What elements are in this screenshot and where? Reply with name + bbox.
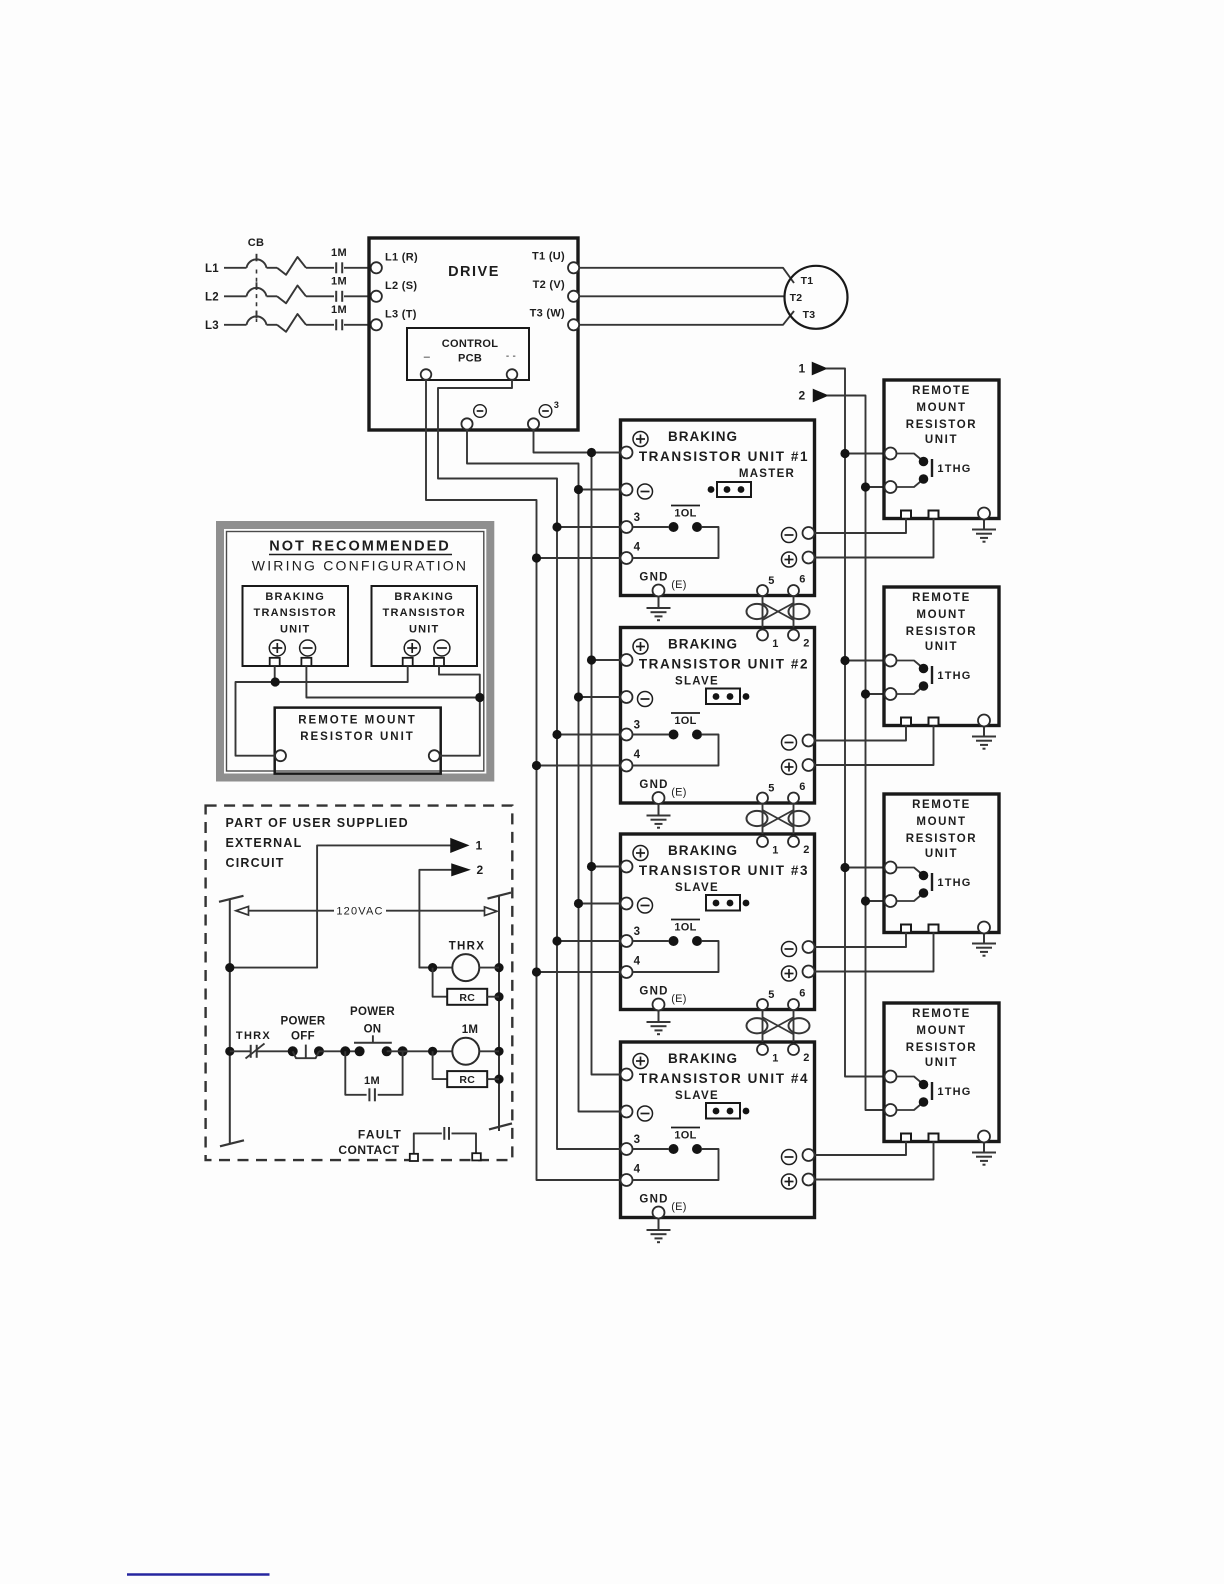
svg-text:1: 1 (772, 638, 778, 650)
svg-text:T1 (U): T1 (U) (532, 250, 565, 262)
svg-text:3: 3 (634, 720, 641, 732)
svg-text:2: 2 (477, 863, 484, 877)
svg-text:NOT RECOMMENDED: NOT RECOMMENDED (269, 539, 450, 555)
svg-text:120VAC: 120VAC (336, 906, 383, 918)
svg-text:RC: RC (459, 1074, 475, 1086)
svg-text:UNIT: UNIT (280, 624, 310, 636)
svg-text:1: 1 (799, 362, 806, 376)
svg-text:SLAVE: SLAVE (675, 1090, 719, 1102)
svg-text:REMOTE: REMOTE (912, 799, 971, 811)
svg-text:MOUNT: MOUNT (916, 816, 966, 828)
svg-text:THRX: THRX (236, 1030, 271, 1042)
svg-text:UNIT: UNIT (409, 624, 439, 636)
svg-text:L3 (T): L3 (T) (385, 308, 417, 320)
svg-text:2: 2 (803, 844, 809, 856)
svg-text:POWER: POWER (350, 1006, 395, 1018)
svg-text:1THG: 1THG (937, 877, 971, 889)
svg-text:TRANSISTOR UNIT #3: TRANSISTOR UNIT #3 (639, 863, 809, 878)
svg-text:6: 6 (799, 574, 805, 586)
svg-text:TRANSISTOR UNIT #4: TRANSISTOR UNIT #4 (639, 1071, 809, 1086)
svg-text:4: 4 (634, 749, 641, 761)
svg-text:2: 2 (803, 638, 809, 650)
svg-text:4: 4 (634, 956, 641, 968)
svg-text:T3: T3 (803, 309, 816, 321)
svg-text:BRAKING: BRAKING (668, 637, 738, 652)
svg-text:TRANSISTOR: TRANSISTOR (383, 607, 466, 619)
svg-text:T1: T1 (801, 275, 814, 287)
svg-text:1THG: 1THG (937, 1086, 971, 1098)
svg-text:T3 (W): T3 (W) (530, 307, 565, 319)
svg-text:REMOTE MOUNT: REMOTE MOUNT (298, 715, 417, 727)
svg-text:T2 (V): T2 (V) (533, 279, 565, 291)
svg-text:RC: RC (459, 992, 475, 1004)
svg-text:GND: GND (639, 572, 668, 584)
svg-text:1M: 1M (364, 1075, 380, 1087)
svg-text:1THG: 1THG (937, 670, 971, 682)
svg-text:5: 5 (768, 783, 774, 795)
svg-text:RESISTOR: RESISTOR (906, 833, 977, 845)
svg-text:(E): (E) (671, 993, 687, 1005)
svg-text:1M: 1M (462, 1024, 479, 1036)
svg-text:1: 1 (772, 1053, 778, 1065)
svg-text:4: 4 (634, 542, 641, 554)
svg-text:5: 5 (768, 989, 774, 1001)
svg-text:- -: - - (506, 351, 516, 362)
svg-text:THRX: THRX (449, 941, 486, 953)
svg-text:1OL: 1OL (674, 1130, 696, 1142)
svg-text:4: 4 (634, 1164, 641, 1176)
svg-text:ON: ON (364, 1024, 382, 1036)
svg-text:CIRCUIT: CIRCUIT (226, 856, 285, 870)
svg-text:1M: 1M (331, 304, 347, 316)
svg-text:L2 (S): L2 (S) (385, 280, 417, 292)
svg-text:DRIVE: DRIVE (448, 264, 500, 280)
svg-text:EXTERNAL: EXTERNAL (226, 836, 303, 850)
svg-text:1: 1 (476, 839, 483, 853)
svg-text:REMOTE: REMOTE (912, 592, 971, 604)
svg-text:2: 2 (799, 389, 806, 403)
svg-text:2: 2 (803, 1052, 809, 1064)
svg-text:3: 3 (634, 1134, 641, 1146)
svg-text:RESISTOR UNIT: RESISTOR UNIT (300, 731, 415, 743)
svg-text:BRAKING: BRAKING (668, 843, 738, 858)
svg-text:OFF: OFF (291, 1031, 315, 1043)
svg-text:MASTER: MASTER (739, 468, 795, 480)
svg-text:(E): (E) (671, 579, 687, 591)
svg-text:CONTROL: CONTROL (442, 338, 498, 350)
svg-text:WIRING CONFIGURATION: WIRING CONFIGURATION (252, 558, 468, 574)
svg-text:TRANSISTOR UNIT #1: TRANSISTOR UNIT #1 (639, 449, 809, 464)
svg-text:3: 3 (634, 512, 641, 524)
svg-text:FAULT: FAULT (358, 1128, 402, 1142)
svg-text:1THG: 1THG (937, 463, 971, 475)
svg-text:UNIT: UNIT (925, 641, 958, 653)
svg-text:MOUNT: MOUNT (916, 402, 966, 414)
svg-text:SLAVE: SLAVE (675, 882, 719, 894)
svg-text:L2: L2 (205, 291, 219, 303)
svg-text:MOUNT: MOUNT (916, 609, 966, 621)
svg-text:L3: L3 (205, 320, 219, 332)
svg-text:PART OF USER SUPPLIED: PART OF USER SUPPLIED (226, 816, 409, 830)
svg-text:GND: GND (639, 1194, 668, 1206)
svg-text:5: 5 (768, 575, 774, 587)
svg-text:L1 (R): L1 (R) (385, 251, 418, 263)
svg-text:GND: GND (639, 779, 668, 791)
svg-text:RESISTOR: RESISTOR (906, 626, 977, 638)
svg-text:RESISTOR: RESISTOR (906, 1042, 977, 1054)
svg-text:BRAKING: BRAKING (265, 591, 325, 603)
svg-text:UNIT: UNIT (925, 848, 958, 860)
svg-text:BRAKING: BRAKING (668, 429, 738, 444)
svg-text:6: 6 (799, 781, 805, 793)
svg-text:CONTACT: CONTACT (338, 1143, 399, 1157)
svg-text:RESISTOR: RESISTOR (906, 419, 977, 431)
svg-text:1M: 1M (331, 247, 347, 259)
svg-text:1M: 1M (331, 275, 347, 287)
svg-text:UNIT: UNIT (925, 434, 958, 446)
svg-text:POWER: POWER (281, 1016, 326, 1028)
svg-text:T2: T2 (790, 292, 803, 304)
svg-text:3: 3 (634, 926, 641, 938)
svg-text:UNIT: UNIT (925, 1057, 958, 1069)
svg-text:SLAVE: SLAVE (675, 676, 719, 688)
svg-text:(E): (E) (671, 1201, 687, 1213)
svg-text:1: 1 (772, 845, 778, 857)
svg-text:1OL: 1OL (674, 922, 696, 934)
svg-text:GND: GND (639, 986, 668, 998)
svg-text:1OL: 1OL (674, 715, 696, 727)
svg-text:MOUNT: MOUNT (916, 1025, 966, 1037)
svg-text:REMOTE: REMOTE (912, 385, 971, 397)
svg-text:BRAKING: BRAKING (668, 1051, 738, 1066)
svg-text:–: – (424, 351, 431, 363)
svg-text:TRANSISTOR UNIT #2: TRANSISTOR UNIT #2 (639, 657, 809, 672)
svg-text:3: 3 (554, 400, 559, 410)
svg-text:1OL: 1OL (674, 508, 696, 520)
svg-text:6: 6 (799, 988, 805, 1000)
svg-text:BRAKING: BRAKING (394, 591, 454, 603)
svg-text:PCB: PCB (458, 353, 482, 365)
svg-text:CB: CB (248, 237, 265, 249)
svg-text:L1: L1 (205, 263, 219, 275)
svg-text:TRANSISTOR: TRANSISTOR (254, 607, 337, 619)
svg-text:(E): (E) (671, 787, 687, 799)
svg-text:REMOTE: REMOTE (912, 1008, 971, 1020)
